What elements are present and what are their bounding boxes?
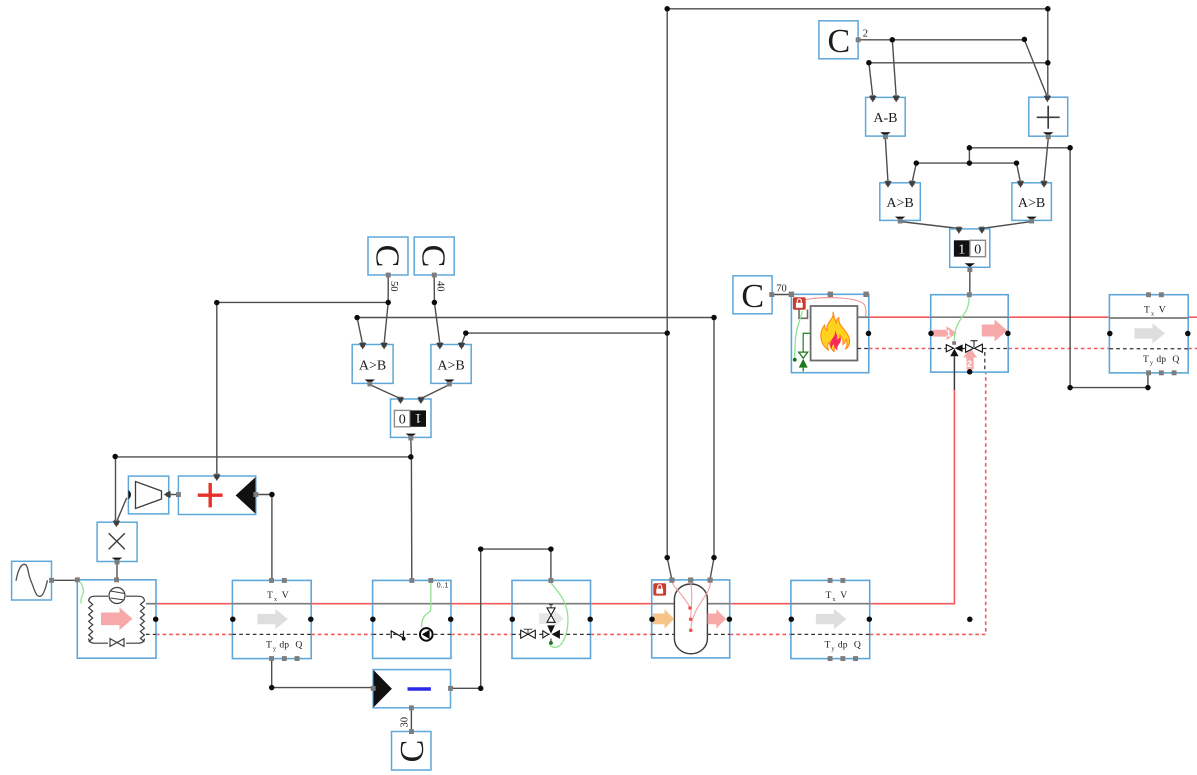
node: sensor BL out corner bbox=[269, 685, 275, 691]
arrowhead: A>B BR input B bbox=[458, 342, 465, 349]
svg-text:2: 2 bbox=[863, 28, 868, 39]
wire: C50 output bbox=[384, 276, 388, 345]
svg-text:C: C bbox=[741, 278, 764, 315]
boiler furnace box bbox=[811, 306, 858, 361]
node: switch BL corner bbox=[408, 454, 414, 460]
wire: bus drop to A>B TR input A bbox=[1017, 163, 1021, 182]
wire: switch BL output bus to X block bbox=[115, 439, 412, 580]
amplifier (gain) block bbox=[128, 476, 168, 514]
node: tank riser3 top corner bbox=[711, 315, 717, 321]
switch BL (0|1) bbox=[391, 399, 432, 440]
arrowhead: A>B TL input A bbox=[884, 180, 891, 187]
node: y62 left end bbox=[866, 60, 872, 65]
svg-text:C: C bbox=[827, 23, 850, 60]
tank padlock icon bbox=[653, 583, 666, 595]
svg-text:2: 2 bbox=[967, 359, 972, 369]
arrowhead: A>B BL input B bbox=[380, 342, 387, 349]
node: C2 branch bbox=[890, 37, 896, 43]
sensor block bottom-left bbox=[230, 578, 314, 661]
constant C50 (rotated down) bbox=[368, 237, 408, 292]
svg-text:30: 30 bbox=[399, 717, 410, 728]
wire: supply pipe top row sensor TR to edge bbox=[1188, 316, 1197, 318]
HP pink arrow bbox=[101, 608, 133, 631]
wire: C50 branch to plus block bbox=[217, 302, 388, 475]
valve TR three-way valve bbox=[952, 341, 956, 345]
wire: plus block output to amp bbox=[170, 494, 178, 496]
node: y148 right bbox=[1067, 145, 1073, 151]
node: hydraulic node between riser pipes bbox=[967, 617, 973, 623]
node: HP outlet bbox=[153, 616, 159, 622]
tank sensor curves (red) bbox=[672, 583, 690, 608]
node: y163 left bbox=[914, 160, 920, 166]
add block with red plus bbox=[176, 474, 258, 515]
arrowhead: amp input (points left) bbox=[164, 491, 171, 498]
node: C40 bend bbox=[432, 300, 438, 306]
wire: return pipe top row sensor TR to edge (dashed) bbox=[1188, 348, 1197, 350]
sine wave source bbox=[12, 561, 54, 600]
svg-text:70: 70 bbox=[776, 283, 787, 294]
arrowhead: A>B TL input B bbox=[908, 180, 915, 187]
wire: minus block output to valve bbox=[451, 549, 551, 688]
wire: supply pipe top row boiler to 3-way valve bbox=[869, 316, 931, 318]
wire: return pipe bottom row sensor to pump (dashed) bbox=[311, 633, 372, 635]
valve TR control wire (green) bbox=[954, 297, 969, 341]
svg-text:A>B: A>B bbox=[359, 359, 386, 374]
comparator A>B bottom-left bbox=[352, 345, 393, 387]
node: plus output bend bbox=[269, 492, 275, 498]
node: tank riser3 bottom bbox=[711, 555, 717, 561]
arrowhead: A>B BL input A bbox=[359, 342, 366, 349]
wire: plus block output to sensor bbox=[256, 495, 272, 580]
pump switch contact symbol bbox=[391, 630, 403, 638]
node: y148 left bbox=[967, 145, 973, 151]
wire: sensor BL output to minus block bbox=[272, 659, 373, 688]
wire: supply pipe bottom row pump to valve bbox=[451, 603, 512, 605]
svg-text:C: C bbox=[369, 245, 406, 268]
valve control wire (green) bbox=[550, 583, 568, 648]
node: y333 left end bbox=[463, 330, 469, 336]
svg-text:C: C bbox=[394, 740, 431, 763]
wire: amp output to X block bbox=[117, 498, 127, 521]
mixing valve block (bottom) bbox=[510, 578, 593, 658]
svg-text:0: 0 bbox=[974, 243, 981, 258]
svg-text:A-B: A-B bbox=[873, 111, 897, 126]
wire: return pipe bottom row valve to tank (dashed) bbox=[591, 633, 652, 635]
wire: supply pipe bottom row tank to sensor BR bbox=[730, 603, 791, 605]
node: boiler outlet bbox=[866, 331, 872, 337]
wire: C2 branch to A-B input B bbox=[892, 40, 896, 97]
tank vessel bbox=[674, 584, 707, 654]
arrowhead: A>B TR input A bbox=[1017, 180, 1024, 187]
wire: switch TR output to 3-way valve bbox=[969, 270, 971, 294]
node: valve edges bbox=[510, 616, 516, 622]
valve TR dashed drop bbox=[984, 352, 986, 372]
boiler flame bbox=[821, 312, 850, 351]
wire: C40 output bbox=[434, 276, 440, 345]
pump circle bbox=[420, 628, 433, 641]
input arrowheads bbox=[113, 95, 1051, 527]
wire: A>B BL output to switch BL bbox=[370, 385, 401, 399]
arrowhead: plus TR input bbox=[1044, 95, 1051, 102]
wire: C2 output bus bbox=[858, 40, 1047, 97]
arrowhead: switch BL input B bbox=[417, 397, 424, 404]
subtract block A-B bbox=[866, 97, 906, 139]
multiply X block bbox=[97, 520, 137, 565]
valve TR pink arrow 2 up bbox=[963, 348, 977, 370]
node: tank edges bbox=[649, 616, 655, 622]
arrowhead: A>B TR input B bbox=[1040, 180, 1047, 187]
HP expansion valve bowtie bbox=[110, 639, 124, 647]
arrowhead: switch BL input A bbox=[397, 397, 404, 404]
node: y317 left end bbox=[354, 315, 360, 321]
wire: tank sensor1 riser to top bus bbox=[667, 9, 1048, 558]
node: tank riser1 junction y333 bbox=[664, 330, 670, 336]
storage tank block bbox=[649, 578, 732, 658]
wire: A-B output to A>B TL input bbox=[885, 139, 888, 182]
arrowhead: A>B BR input A bbox=[436, 342, 443, 349]
comparator A>B bottom-right bbox=[431, 345, 471, 387]
wire: minus block parameter from C30 bbox=[410, 708, 412, 732]
node: X feed corner bbox=[112, 454, 118, 460]
svg-text:40: 40 bbox=[435, 281, 446, 292]
wire: supply pipe top row valve to sensor TR bbox=[1008, 316, 1109, 318]
arrowhead: A-B input B bbox=[893, 95, 900, 102]
svg-text:0..1: 0..1 bbox=[437, 582, 449, 589]
wire: return pipe top row valve to sensor TR (dashed) bbox=[1008, 348, 1109, 350]
arrowhead: switch TR input A bbox=[955, 227, 962, 234]
wire: supply pipe bottom row valve to tank bbox=[591, 603, 652, 605]
constant C2 bbox=[819, 21, 868, 60]
wire: supply pipe bottom row sensor BR to riser bbox=[870, 390, 955, 604]
arrowhead: A-B input A bbox=[869, 95, 876, 102]
wire: return pipe bottom row tank to sensor BR (dashed) bbox=[730, 633, 791, 635]
svg-text:A>B: A>B bbox=[886, 196, 913, 211]
wire: return pipe bottom row sensor BR to riser (dashed) bbox=[870, 373, 986, 635]
heat pump block bbox=[75, 577, 159, 658]
node: minus out corner 3 bbox=[548, 546, 554, 552]
wire: return pipe bottom row HP to sensor (dashed) bbox=[156, 633, 232, 635]
wire: tank sensor1 drop to tank port bbox=[667, 558, 671, 578]
wire: bus drop to A>B TL input B bbox=[912, 163, 916, 182]
boiler block bbox=[789, 292, 872, 373]
node: minus out corner 2 bbox=[478, 546, 484, 552]
wire: comparator feed bus y=163 bbox=[916, 162, 1016, 164]
wire: sensor TR return line to comparators bbox=[969, 148, 1148, 388]
wire: X block output to HP bbox=[116, 563, 118, 579]
boiler pipe stubs bbox=[857, 316, 868, 318]
wire: return pipe bottom row pump to valve (dashed) bbox=[451, 633, 512, 635]
node: top bus right bbox=[1045, 6, 1051, 12]
tank pink arrow bbox=[708, 609, 726, 628]
node: C50 branch bbox=[385, 300, 391, 306]
svg-text:A>B: A>B bbox=[1018, 196, 1045, 211]
node: return line corner right bbox=[1145, 385, 1151, 391]
node: C50 bus corner bbox=[214, 300, 220, 306]
tank orange arrow bbox=[653, 609, 674, 628]
node: y163 right bbox=[1014, 160, 1020, 166]
three-way valve block (top) bbox=[928, 292, 1010, 390]
arrowhead: X block input bbox=[113, 520, 120, 527]
wire: supply pipe bottom row sensor to pump bbox=[311, 603, 372, 605]
HP control wire (green) bbox=[81, 582, 84, 604]
node: y163 mid bbox=[967, 160, 973, 166]
svg-text:A>B: A>B bbox=[437, 359, 464, 374]
svg-text:50: 50 bbox=[388, 281, 399, 292]
HP refrigerant loop zigzag bbox=[89, 596, 145, 643]
node: tank riser1 bottom bbox=[664, 555, 670, 561]
wire: bus y=62.7 to A-B input A bbox=[869, 63, 1048, 97]
subtract block with blue minus bbox=[371, 670, 453, 711]
node: return line corner left bbox=[1067, 385, 1073, 391]
valve TR outlet pipe down bbox=[953, 356, 955, 390]
wire: A>B TR output to switch TR bbox=[982, 222, 1032, 229]
node: pump edges bbox=[370, 616, 376, 622]
comparator A>B top-right bbox=[1012, 183, 1052, 224]
arrowhead: plus block top input bbox=[213, 474, 220, 481]
wire: tank sensor3 drop to tank port bbox=[710, 558, 714, 578]
sensor block bottom-right bbox=[789, 578, 873, 661]
svg-text:C: C bbox=[415, 245, 452, 268]
comparator A>B top-left bbox=[880, 183, 921, 224]
boiler thin red control curve bbox=[806, 298, 866, 317]
wire: sine to HP bbox=[52, 579, 78, 581]
wire: supply pipe bottom row HP to sensor bbox=[156, 603, 232, 605]
pump block bbox=[370, 578, 453, 658]
constant C70 bbox=[733, 276, 787, 315]
boiler small gray box bbox=[799, 310, 808, 319]
svg-text:1: 1 bbox=[415, 410, 422, 425]
shut-off valve bowtie bbox=[521, 630, 536, 638]
constant C40 (rotated down) bbox=[414, 237, 454, 292]
boiler padlock icon bbox=[793, 297, 806, 309]
switch TR (1|0) bbox=[950, 229, 990, 272]
wire: C70 to boiler bbox=[772, 294, 792, 296]
three-way valve vertical bbox=[549, 604, 553, 608]
node: top bus left bbox=[664, 6, 670, 12]
boiler green control wire bbox=[795, 311, 803, 359]
svg-text:1: 1 bbox=[958, 243, 965, 258]
svg-text:0: 0 bbox=[399, 413, 406, 428]
node: C2 bus bend bbox=[1022, 37, 1028, 43]
valve TR second valve bowtie bbox=[966, 344, 983, 352]
wire: branch to A>B right comparator (y=333) bbox=[462, 333, 668, 344]
node: valve TR edges bbox=[928, 331, 934, 337]
wire: plus TR output to A>B TR input bbox=[1044, 139, 1048, 182]
wire: tank sensor3 riser x=714 bbox=[357, 318, 714, 558]
valve TR small pink arrow 1 bbox=[933, 326, 957, 340]
HP pipe stubs bbox=[146, 603, 156, 605]
add block plus TR bbox=[1029, 97, 1068, 139]
constant C30 (rotated up) bbox=[392, 717, 432, 770]
wire: return pipe top row boiler to valve (dashed) bbox=[869, 348, 931, 350]
svg-text:1: 1 bbox=[946, 329, 951, 339]
node: minus out corner 1 bbox=[478, 686, 484, 692]
valve gray arrow bbox=[539, 609, 564, 628]
boiler green pipe and valve bbox=[803, 333, 810, 352]
HP compressor circle bbox=[109, 588, 125, 604]
sensor block top-right bbox=[1107, 292, 1191, 375]
wire: A>B BR output to switch BL bbox=[421, 385, 449, 399]
node: y62 junction bbox=[1045, 60, 1051, 66]
arrowhead: switch TR input B bbox=[978, 227, 985, 234]
wire: A>B TL output to switch TR bbox=[900, 222, 959, 229]
pump control wire (green) bbox=[422, 583, 431, 628]
valve TR big pink arrow bbox=[982, 320, 1008, 342]
